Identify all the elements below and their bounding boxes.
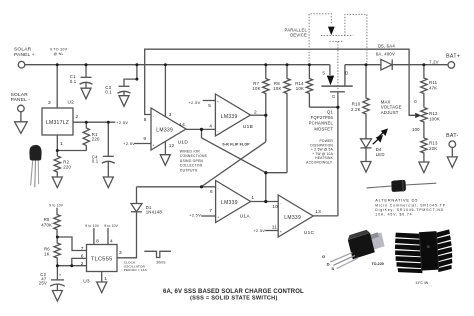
svg-text:USING OPEN: USING OPEN xyxy=(180,159,204,163)
svg-text:4: 4 xyxy=(110,238,113,244)
svg-text:30mS: 30mS xyxy=(156,260,166,264)
svg-text:10: 10 xyxy=(272,204,278,210)
svg-text:3: 3 xyxy=(119,250,122,256)
svg-text:G: G xyxy=(322,254,325,259)
svg-text:2: 2 xyxy=(76,114,79,120)
junction R5 / R6 / U3 pin7 xyxy=(56,236,59,239)
junction C3 lead xyxy=(135,78,138,81)
svg-text:U3: U3 xyxy=(83,278,90,284)
svg-text:S-R FLIP FLOP: S-R FLIP FLOP xyxy=(222,142,250,146)
junction R6 / C2 / U3 pin2 xyxy=(56,264,59,267)
capacitor C3 xyxy=(119,85,130,87)
svg-text:LM339: LM339 xyxy=(221,200,238,206)
op-amp U1B LM339 xyxy=(215,94,250,136)
svg-text:3: 3 xyxy=(169,112,172,118)
wire U1B output 2 xyxy=(250,114,265,116)
wire rail right section drain to D5 xyxy=(345,64,381,66)
resistor R8 10K xyxy=(284,65,290,173)
svg-text:WIRED /OR: WIRED /OR xyxy=(180,150,200,154)
wiper arrowhead of R12 xyxy=(415,113,421,118)
svg-text:PCHANNEL: PCHANNEL xyxy=(309,121,334,126)
wire node X down to U1A out xyxy=(265,173,267,202)
ground under U1D pin 12 xyxy=(160,155,170,166)
terminal BAT- xyxy=(449,141,456,148)
svg-text:SOLAR: SOLAR xyxy=(11,92,29,98)
svg-text:1: 1 xyxy=(251,195,254,201)
svg-text:ADJUST: ADJUST xyxy=(381,110,399,115)
svg-text:22K: 22K xyxy=(429,146,437,151)
svg-text:PANEL +: PANEL + xyxy=(14,52,35,58)
wire TLC555 pin 1 to ground xyxy=(101,272,103,283)
junction R1 top / U2 pin2 xyxy=(85,121,88,124)
svg-text:CONNECTIONS: CONNECTIONS xyxy=(180,154,208,158)
svg-text:9 TO 10V: 9 TO 10V xyxy=(50,47,68,51)
svg-text:13: 13 xyxy=(315,209,321,215)
svg-text:DEVICE: DEVICE xyxy=(290,32,307,37)
junction rail / U2 pin3 xyxy=(56,63,59,66)
svg-text:4: 4 xyxy=(209,124,212,130)
ground under TLC555 pin 1 xyxy=(97,282,107,293)
svg-text:+2.5V: +2.5V xyxy=(189,212,201,217)
junction rail / R8 xyxy=(286,63,289,66)
resistor R6 1K xyxy=(54,237,60,266)
node U1A pin6 / D1 xyxy=(200,185,203,188)
junction rail / R7 xyxy=(264,63,267,66)
wire U1D pin 3 power from rail xyxy=(164,65,166,117)
wire U2 pin 2 node to +2.6V xyxy=(73,121,115,123)
svg-text:@ NL: @ NL xyxy=(54,52,64,56)
junction rail / C1 xyxy=(85,63,88,66)
terminal SOLAR PANEL - xyxy=(18,105,25,112)
svg-text:220: 220 xyxy=(63,165,71,170)
junction U3 pin6 / pin2 xyxy=(70,264,73,267)
photo axial diode alternative D5 xyxy=(367,180,437,192)
LED D4 arrows xyxy=(373,139,379,144)
wire Q1 gate line down to U1C output xyxy=(337,92,339,216)
wire U1D pin 12 to ground xyxy=(164,141,166,155)
svg-text:7: 7 xyxy=(81,246,84,252)
diode D5 6A4 xyxy=(381,59,392,70)
svg-text:D: D xyxy=(345,71,348,76)
wire TLC555 pin 4 supply xyxy=(107,228,109,245)
clock pulse waveform symbol xyxy=(144,251,171,257)
wire +2.6V to U1B pin 5 xyxy=(203,100,216,102)
svg-text:ALTERNATIVE D5: ALTERNATIVE D5 xyxy=(375,198,418,203)
svg-text:MOSFET: MOSFET xyxy=(314,126,333,131)
op-amp U1A LM339 xyxy=(216,181,251,223)
svg-text:U2: U2 xyxy=(68,100,75,106)
resistor R13 22K xyxy=(421,138,427,162)
svg-text:0.1: 0.1 xyxy=(92,158,99,163)
wire x57 rail to U2 pin 3 xyxy=(56,65,58,108)
regulator U2 LM317LZ box xyxy=(42,108,73,135)
svg-text:10K: 10K xyxy=(273,86,281,91)
svg-text:9 to 10V: 9 to 10V xyxy=(85,224,99,228)
svg-text:FQP27P06: FQP27P06 xyxy=(311,115,334,120)
svg-text:ACCORDINGLY.: ACCORDINGLY. xyxy=(306,161,333,165)
svg-text:S: S xyxy=(322,71,325,76)
ground under solar- xyxy=(15,122,28,134)
wire R1 bottom to U2 pin1 xyxy=(57,150,86,152)
svg-text:2: 2 xyxy=(81,261,84,267)
ground under R13 xyxy=(419,162,429,173)
svg-text:COLLECTOR: COLLECTOR xyxy=(180,164,203,168)
resistor R7 10K xyxy=(263,65,269,116)
svg-text:100K: 100K xyxy=(429,117,440,122)
svg-text:S: S xyxy=(331,266,334,271)
photo TO-220 package xyxy=(322,230,385,271)
wire +2.6V to U1C pin 11 xyxy=(265,230,278,232)
wire TLC555 pin 2 to C2 node xyxy=(57,265,86,267)
svg-text:D5, 6A4: D5, 6A4 xyxy=(378,43,395,48)
ground under C2 xyxy=(52,291,62,302)
photo TO-92 package of U2 xyxy=(29,145,41,187)
svg-text:220: 220 xyxy=(92,137,100,142)
wire rail D5 to BAT+ xyxy=(392,64,448,66)
node Q1 gate / R14 xyxy=(336,106,339,109)
LED D4 xyxy=(361,139,372,148)
svg-text:1N4148: 1N4148 xyxy=(146,210,163,215)
svg-text:PANEL -: PANEL - xyxy=(11,97,31,103)
svg-text:Micro Commercial, SR1045-TP: Micro Commercial, SR1045-TP xyxy=(375,203,446,207)
node X R8 pullup xyxy=(264,171,267,174)
svg-text:PERIOD = 16S: PERIOD = 16S xyxy=(124,268,147,272)
wire diagonal A node201 to node X xyxy=(202,138,266,173)
svg-text:1: 1 xyxy=(104,276,107,282)
svg-text:9 to 10V: 9 to 10V xyxy=(104,224,118,228)
svg-text:14: 14 xyxy=(179,122,185,128)
svg-text:11°C /W: 11°C /W xyxy=(415,281,429,285)
op-amp U1C LM339 xyxy=(278,195,313,237)
wire +2.6V to U1D pin 9 xyxy=(135,143,152,145)
svg-text:U1C: U1C xyxy=(304,230,315,236)
svg-text:7: 7 xyxy=(209,208,212,214)
diode D1 1N4148 xyxy=(131,204,142,212)
resistor R10 2.2K xyxy=(363,65,369,139)
svg-text:9 to 10V: 9 to 10V xyxy=(49,204,63,208)
capacitor C4 xyxy=(107,122,109,156)
photo heatsink xyxy=(394,229,454,274)
svg-text:BAT+: BAT+ xyxy=(446,53,460,59)
svg-text:8: 8 xyxy=(144,117,147,123)
ground under C4 xyxy=(103,177,113,188)
wire main 9-10V rail left section xyxy=(25,64,330,66)
wire C3 drop from rail xyxy=(124,65,137,87)
resistor R5 470K xyxy=(54,208,60,237)
timer U3 TLC555 box xyxy=(87,245,118,272)
wire BAT- to ground xyxy=(451,148,453,157)
svg-text:10A, 45V, $0.74: 10A, 45V, $0.74 xyxy=(375,212,412,216)
svg-text:8: 8 xyxy=(96,238,99,244)
svg-text:0.1: 0.1 xyxy=(70,79,77,84)
svg-text:LM339: LM339 xyxy=(284,215,301,221)
resistor R1 220 xyxy=(83,122,89,150)
svg-text:10K: 10K xyxy=(252,86,260,91)
svg-text:BAT-: BAT- xyxy=(446,133,459,139)
wire D1 cathode to TLC555 pin 3 xyxy=(117,212,137,258)
terminal SOLAR PANEL + xyxy=(18,61,25,68)
svg-text:R11: R11 xyxy=(429,80,438,85)
svg-text:11: 11 xyxy=(272,225,278,231)
svg-text:LM339: LM339 xyxy=(156,128,173,134)
svg-text:D: D xyxy=(327,261,330,266)
wire D1 net from D1 to U1A pin 6 xyxy=(137,187,216,204)
svg-text:2.2K: 2.2K xyxy=(351,107,361,112)
wire U1B out stub down xyxy=(265,115,267,142)
svg-text:7.2V: 7.2V xyxy=(429,60,439,65)
ground under BAT- xyxy=(447,157,457,168)
svg-text:6: 6 xyxy=(81,254,84,260)
resistor R14 10K xyxy=(306,65,312,108)
junction rail / C3 xyxy=(135,63,138,66)
svg-text:LM339: LM339 xyxy=(221,114,238,120)
svg-text:OUTPUTS: OUTPUTS xyxy=(180,168,198,172)
transistor Q1 FQP27P06 MOSFET xyxy=(329,65,331,75)
capacitor C1 xyxy=(85,65,87,78)
wire U1A output 1 to U1C pin 10 xyxy=(251,201,279,203)
svg-text:+2.5V: +2.5V xyxy=(123,141,135,146)
svg-text:LM317LZ: LM317LZ xyxy=(46,120,69,126)
svg-text:SOLAR: SOLAR xyxy=(14,47,32,53)
svg-text:+: + xyxy=(59,273,62,278)
svg-text:0: 0 xyxy=(414,99,417,104)
svg-text:R12: R12 xyxy=(429,111,438,116)
terminal BAT+ xyxy=(448,62,455,69)
wire stub below U1D out node xyxy=(201,129,203,138)
svg-text:LED: LED xyxy=(376,152,385,157)
svg-text:TLC555: TLC555 xyxy=(91,256,113,262)
junction rail / U1D pin3 xyxy=(164,63,167,66)
resistor R11 47K xyxy=(421,65,427,108)
wire TLC555 pin 8 supply xyxy=(93,228,95,245)
svg-text:6A, 6V SSS BASED SOLAR CHARGE: 6A, 6V SSS BASED SOLAR CHARGE CONTROL xyxy=(163,289,304,295)
wire TLC555 pin 7 to R5/R6 junction xyxy=(57,237,86,251)
resistor R2 220 xyxy=(54,156,60,177)
ground under D4 xyxy=(361,162,371,173)
wire U1D output 14 to U1B pin 4 xyxy=(186,128,215,130)
junction rail / R14 xyxy=(308,63,311,66)
ground under C1 xyxy=(81,88,91,99)
potentiometer R12 100K xyxy=(421,108,427,139)
wire U1C output 13 to gate line xyxy=(313,215,338,217)
junction U2 pin1 / R1 / R2 xyxy=(56,149,59,152)
svg-text:10K: 10K xyxy=(296,86,304,91)
node U1D out / U1B pin4 xyxy=(200,128,203,131)
svg-text:G: G xyxy=(332,94,335,99)
svg-text:6A, 400V: 6A, 400V xyxy=(376,52,395,57)
wire diagonal B U1B out down to U1A pin6 node xyxy=(202,142,266,187)
svg-text:+2.5V: +2.5V xyxy=(253,228,265,233)
ground under C3 xyxy=(119,96,129,107)
svg-text:3: 3 xyxy=(48,100,51,106)
svg-text:100: 100 xyxy=(412,127,420,132)
svg-text:0.1: 0.1 xyxy=(105,89,112,94)
wire R8 bottom to node X xyxy=(266,172,287,174)
svg-text:+2.5V: +2.5V xyxy=(189,100,201,105)
svg-text:6: 6 xyxy=(210,189,213,195)
node U1A out / U1C pin10 xyxy=(264,200,267,203)
wire +2.6V to U1A pin 7 xyxy=(201,215,215,217)
wire solar- to ground xyxy=(20,112,22,122)
svg-text:R10: R10 xyxy=(352,101,361,106)
junction rail / R10 xyxy=(365,63,368,66)
svg-text:1: 1 xyxy=(60,141,63,147)
svg-text:U1D: U1D xyxy=(178,140,189,146)
junction rail / R11 xyxy=(422,63,425,66)
wire feedback line from R12 wiper to U1D pin 8 xyxy=(145,49,417,115)
svg-text:5: 5 xyxy=(208,103,211,109)
svg-text:DigiKey: SR1045-TPMSCT-ND: DigiKey: SR1045-TPMSCT-ND xyxy=(375,208,444,212)
op-amp U1D LM339 xyxy=(151,108,186,150)
ground under R2 xyxy=(52,177,62,188)
svg-text:47K: 47K xyxy=(429,86,437,91)
wire TLC555 pin 6 xyxy=(72,258,87,265)
parallel device dashed MOSFET xyxy=(309,14,331,65)
svg-text:TO-220: TO-220 xyxy=(371,262,383,266)
svg-text:U1B: U1B xyxy=(243,124,253,130)
svg-text:U1A: U1A xyxy=(240,213,251,219)
svg-text:470K: 470K xyxy=(41,222,52,227)
wire R14 to Q1 gate node xyxy=(309,106,338,108)
wire U2 pin 1 down xyxy=(56,135,58,156)
svg-text:+2.5V: +2.5V xyxy=(116,120,128,125)
svg-text:2: 2 xyxy=(254,109,257,115)
svg-text:(SSS = SOLID STATE SWITCH): (SSS = SOLID STATE SWITCH) xyxy=(190,296,278,302)
node U1B out / R7 xyxy=(264,114,267,117)
svg-text:25V: 25V xyxy=(39,281,47,286)
svg-text:Q1: Q1 xyxy=(327,110,333,115)
svg-text:1K: 1K xyxy=(44,251,50,256)
svg-text:9: 9 xyxy=(143,136,146,142)
capacitor C2 47uF 25V xyxy=(56,266,58,280)
svg-text:12: 12 xyxy=(169,143,175,149)
junction C4 / U2 pin2 xyxy=(107,121,110,124)
